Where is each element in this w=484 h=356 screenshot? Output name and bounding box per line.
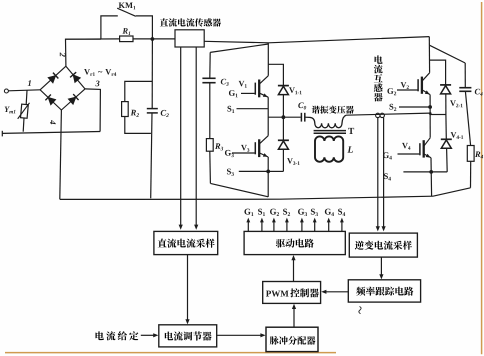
wire mid-right node [430, 114, 446, 116]
resistor R3 [209, 83, 211, 139]
label R4 [475, 151, 483, 158]
wire C2 to DC- bus [151, 113, 152, 198]
capacitor C2 [147, 108, 158, 110]
block inverter current sampling [349, 233, 417, 257]
label C4 [475, 89, 483, 96]
resistor R2 stub [125, 81, 152, 101]
label C3 [221, 79, 229, 86]
block drive circuit [244, 231, 345, 254]
wire AC line 1 [8, 90, 40, 91]
IGBT V3 [232, 152, 255, 154]
wire mid to C0 [268, 116, 301, 118]
label current transformer (vertical) [374, 55, 383, 101]
terminal labels G1 S1 G2 S2 G3 S3 G4 S4 [244, 209, 253, 216]
wire node2 to DC+ rail [66, 39, 101, 66]
varistor Ym1 [25, 91, 28, 105]
wire primary to right leg [346, 113, 430, 115]
arrow pulse distributor to PWM [293, 307, 295, 328]
arrow frequency tracking to PWM [324, 291, 348, 293]
capacitor C4 [464, 63, 466, 88]
label R1 [122, 28, 130, 35]
label S1 / lead [227, 106, 234, 113]
wire node4 down to DC- bus [60, 110, 62, 199]
label Ym1 [5, 107, 16, 114]
arrow regulator to pulse distributor [217, 334, 263, 336]
contactor KM1 (bypass switch) [101, 16, 118, 39]
block PWM controller [263, 282, 321, 304]
label G1 [229, 90, 238, 97]
border line bottom (orange) [5, 352, 336, 354]
block frequency tracking circuit [348, 280, 420, 302]
label V4 [402, 143, 410, 150]
capacitor C0 [300, 113, 302, 122]
IGBT V4 [398, 153, 420, 155]
sensor sense wire B [195, 47, 197, 227]
CT sense wire B [383, 118, 385, 229]
label C2 [161, 110, 169, 117]
label C0 [298, 102, 306, 109]
label G4 [383, 152, 392, 159]
drive circuit gate arrows [247, 221, 249, 232]
node S2 junction [428, 105, 432, 109]
border line right (orange) [481, 2, 483, 354]
capacitor C3 [209, 52, 211, 78]
label Vr1 ~ Vr4 [84, 69, 116, 76]
node mid-left junction [282, 115, 286, 119]
label KM1 [119, 2, 136, 9]
label current reference [96, 331, 139, 340]
transformer T core [314, 130, 346, 132]
label R3 [215, 143, 223, 150]
arrow DC sampling to current regulator [187, 255, 189, 322]
resistor R2 [122, 102, 129, 117]
diode V3-1 [282, 117, 284, 140]
wire V1 emitter to V3 collector [267, 97, 269, 136]
label V3-1 [287, 158, 300, 165]
CT sense wire A [377, 118, 379, 229]
label G2 [387, 88, 396, 95]
node S3 junction [266, 170, 270, 174]
transformer T primary winding [310, 115, 347, 128]
label S3 / lead [227, 169, 234, 176]
IGBT V1 [241, 92, 255, 94]
node S4 junction [429, 170, 433, 174]
wire AC line 2 (bottom) [1, 131, 3, 137]
block DC current sampling [154, 231, 218, 254]
label resonant transformer [312, 106, 354, 114]
stray mark below frequency tracking box [359, 307, 361, 314]
wire R4 to bus [470, 161, 472, 188]
node 4 label (rotated) [50, 120, 56, 124]
resistor R4 [465, 91, 470, 145]
arrow inverter sampling to frequency tracking [380, 257, 382, 277]
label V1 [239, 81, 247, 88]
arrow PWM to drive circuit [293, 258, 295, 282]
diode Vr3 (bridge lower-left arm) [40, 90, 61, 110]
block pulse distributor [266, 327, 318, 351]
arrow current reference to regulator [141, 334, 156, 336]
wire to snubber branch [210, 44, 268, 52]
label V4-1 [451, 132, 464, 139]
label R2 [131, 110, 139, 117]
junction DC+ [151, 37, 155, 41]
IGBT V2 [397, 89, 418, 91]
label S4 / lead [384, 173, 391, 180]
diode V2-1 [430, 60, 446, 85]
diode V4-1 [445, 115, 447, 140]
block current regulator [159, 325, 217, 347]
label V2 [401, 82, 409, 89]
node 1 label [28, 80, 31, 86]
label G3 [225, 150, 234, 157]
diode Vr1 (bridge upper-left arm) [40, 66, 66, 90]
node 2 label (rotated) [60, 52, 66, 56]
resistor R1 [120, 36, 133, 42]
label V2-1 [450, 100, 463, 107]
diode Vr2 (bridge upper-right arm) [66, 66, 85, 89]
diode Vr4 (bridge lower-right arm) [61, 89, 85, 110]
DC current sensor box [175, 30, 204, 47]
diode V1-1 [268, 64, 283, 85]
inductor L (secondary load loop) [315, 136, 343, 161]
wire DC- bus [60, 196, 433, 199]
wire top bus corner to V2 collector [428, 37, 430, 73]
node 3 label [95, 81, 99, 87]
label DC current sensor [160, 18, 221, 26]
current transformer pickup [376, 113, 380, 117]
label S2 / lead [389, 104, 396, 111]
wire sensor to top bus [204, 37, 429, 43]
wire V1 collector [267, 43, 269, 76]
wire DC+ drop (C2 branch) [151, 39, 153, 108]
label V3 [241, 145, 249, 152]
label L [347, 146, 353, 152]
sensor sense wire A [180, 47, 182, 227]
wire snubber bottom diagonal [209, 151, 212, 183]
wire bus diagonal to C4 [429, 45, 465, 63]
AC input terminal 1 [4, 89, 8, 93]
wire node3 down [85, 89, 100, 132]
label T [348, 128, 354, 134]
label V1-1 [289, 87, 302, 94]
wire DC+ rail [65, 38, 119, 40]
